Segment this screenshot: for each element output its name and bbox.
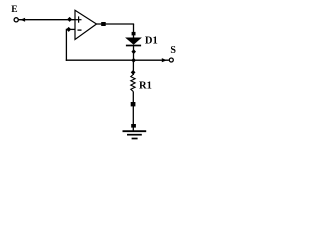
junction dot (net / diode / resistor) (131, 58, 136, 63)
wire from output corner down to diode (133, 24, 135, 39)
wire from junction down to resistor (132, 60, 134, 75)
diode D1 triangle (126, 38, 141, 45)
wire stub into - input (66, 28, 75, 30)
op-amp output pin square (101, 22, 106, 26)
svg-text:D1: D1 (145, 35, 158, 46)
op-amp + sign (76, 19, 82, 21)
svg-text:R1: R1 (139, 80, 152, 91)
E pin arrowhead (20, 18, 25, 22)
resistor bottom pin square (131, 102, 136, 106)
ground symbol bars (123, 130, 147, 132)
resistor top pin dot (131, 70, 136, 75)
node S arrowhead (162, 58, 167, 62)
diode D1 anode pin square (132, 32, 136, 36)
terminal E (open circle) (14, 18, 18, 22)
op-amp output wire (97, 23, 135, 25)
svg-text:E: E (11, 5, 17, 15)
diode D1 cathode bar (126, 45, 141, 47)
terminal S (open circle) (169, 58, 173, 62)
op-amp - sign (78, 29, 82, 31)
wire from E to op-amp + input (19, 19, 76, 21)
node dot on - input (66, 27, 71, 32)
cathode pin dot (131, 49, 136, 54)
op-amp U1 triangle (75, 10, 97, 39)
ground pin square (131, 124, 136, 128)
svg-text:S: S (170, 45, 176, 56)
node dot on + input (67, 17, 72, 22)
wire from resistor to bottom pin (132, 91, 134, 130)
feedback wire (vertical, - input down to output net) (65, 29, 67, 61)
output net wire (horizontal at y=60) (66, 59, 169, 61)
wire cathode to net (133, 46, 135, 61)
resistor R1 zigzag body (131, 75, 135, 92)
